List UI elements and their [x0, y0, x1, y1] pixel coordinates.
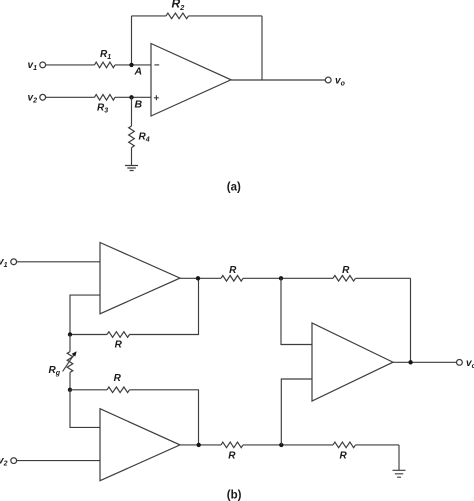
wire U4 feedback vertical	[410, 278, 412, 362]
svg-text:R: R	[114, 373, 122, 384]
wire U2 feedback right + up to output	[130, 278, 199, 334]
wire v1 to R1	[46, 64, 95, 66]
resistor R (top rail right, U4 feedback)	[333, 276, 356, 282]
resistor R (bottom rail right)	[333, 442, 356, 448]
svg-text:(a): (a)	[227, 182, 241, 194]
wire Rg top lead	[69, 335, 71, 352]
wire U1 output	[231, 79, 325, 81]
node Rg bottom dot	[68, 388, 72, 392]
minus sign U1	[154, 64, 159, 66]
wire node B down to R4	[131, 97, 133, 126]
resistor R1	[95, 62, 116, 68]
resistor R (top rail left)	[221, 276, 243, 282]
svg-text:(b): (b)	[227, 489, 242, 501]
svg-text:Rg: Rg	[49, 365, 61, 377]
svg-text:R: R	[228, 451, 236, 462]
svg-text:v1: v1	[28, 60, 38, 72]
wire Rg bottom lead	[69, 372, 71, 389]
op-amp U2	[100, 243, 180, 314]
wire v1 to op-amp U2	[17, 261, 100, 263]
resistor R3	[95, 95, 116, 101]
terminal v1 (b)	[11, 259, 17, 265]
resistor R2	[166, 13, 189, 19]
svg-text:vo: vo	[466, 358, 474, 370]
terminal v1 (a)	[40, 62, 46, 68]
svg-text:R4: R4	[139, 132, 150, 144]
wire node A up to feedback	[131, 16, 133, 65]
svg-text:A: A	[134, 66, 143, 78]
op-amp U3	[100, 409, 180, 481]
svg-text:R: R	[342, 265, 350, 276]
wire bottom rail: U3 output to ground corner	[180, 444, 399, 446]
wire U2 inverting input to node	[70, 295, 100, 334]
wire top rail: U2 output to U4 feedback corner	[180, 277, 411, 279]
wire U3 inverting input from node	[70, 390, 100, 428]
svg-text:R3: R3	[97, 103, 108, 115]
ground (a)	[125, 166, 138, 171]
node bottom rail to U4 input dot	[279, 443, 283, 447]
wire feedback top left segment	[132, 15, 167, 17]
wire R4 to ground	[131, 148, 133, 166]
svg-text:vo: vo	[335, 75, 346, 87]
resistor R (U3 feedback)	[107, 387, 130, 393]
wire U3 feedback left segment	[70, 389, 107, 391]
wire U4 upper input	[281, 278, 312, 344]
wire U2 feedback left segment	[70, 334, 107, 336]
node U3 output dot	[197, 443, 201, 447]
wire v2 to R3	[46, 96, 95, 98]
svg-text:v1: v1	[0, 257, 8, 269]
svg-text:R: R	[229, 265, 237, 276]
plus sign U1	[154, 95, 159, 100]
resistor R (U2 feedback)	[107, 332, 130, 338]
terminal vo (a)	[325, 77, 331, 83]
resistor R4	[129, 126, 135, 148]
wire U4 output	[393, 361, 457, 363]
node top rail to U4 input dot	[279, 276, 283, 280]
op-amp U1	[151, 44, 231, 117]
wire U4 lower input	[281, 379, 312, 445]
svg-text:v2: v2	[28, 92, 38, 104]
wire U3 feedback right + down to output	[130, 390, 199, 445]
node U2 output dot	[196, 276, 200, 280]
node B dot	[129, 95, 133, 99]
wire feedback down to output	[261, 16, 263, 80]
svg-text:R: R	[115, 339, 123, 350]
node Rg top dot	[68, 332, 72, 336]
svg-text:v2: v2	[0, 456, 8, 468]
wire ground drop (b)	[398, 445, 400, 470]
terminal v2 (b)	[11, 458, 17, 464]
terminal v2 (a)	[40, 94, 46, 100]
svg-text:B: B	[135, 99, 143, 111]
node U4 output dot	[408, 360, 412, 364]
wire R1 to op-amp U1 inverting input	[115, 64, 151, 66]
wire v2 to op-amp U3	[17, 460, 100, 462]
svg-text:R: R	[339, 451, 347, 462]
variable resistor Rg	[67, 352, 73, 373]
wire R3 to op-amp U1 noninverting input	[115, 96, 151, 98]
resistor R (bottom rail left)	[221, 442, 243, 448]
op-amp U4	[312, 323, 393, 401]
terminal vo (b)	[457, 360, 463, 366]
wire feedback top right segment	[189, 15, 263, 17]
Rg arrow	[63, 354, 75, 371]
ground (b)	[393, 470, 406, 477]
svg-text:R1: R1	[100, 49, 111, 61]
svg-text:R2: R2	[172, 0, 186, 12]
node A dot	[129, 63, 133, 67]
